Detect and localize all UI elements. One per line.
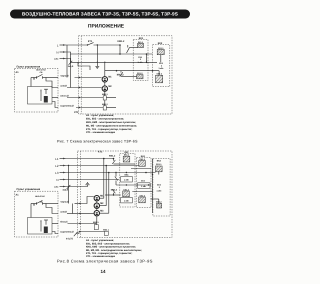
contactor contact KM2.2: [117, 71, 137, 77]
fan rect VB2: [121, 197, 133, 203]
svg-text:Пульт управления: Пульт управления: [17, 188, 41, 191]
svg-text:М3: М3: [100, 210, 104, 213]
fan rect VB1: [121, 174, 133, 182]
svg-text:Рис.8 Схема электрическая заве: Рис.8 Схема электрическая завеса ТЗР-9S: [57, 259, 153, 264]
wire row y185: [116, 184, 151, 185]
svg-text:L1: L1: [55, 157, 59, 161]
heater element EK2.2: [139, 194, 146, 202]
contactor contact KM1.2: [109, 155, 121, 164]
svg-text:ХТ1: ХТ1: [74, 111, 79, 114]
wire L1 bus: [65, 158, 114, 160]
svg-text:черный: черный: [60, 201, 69, 204]
wire row y168.5: [131, 168, 151, 170]
svg-text:СВ: СВ: [40, 71, 43, 74]
svg-text:КМ1.2: КМ1.2: [109, 155, 116, 158]
ground: [85, 183, 89, 185]
svg-text:КТ1: КТ1: [88, 40, 93, 43]
wire motor feed vertical: [104, 62, 105, 106]
heater element EK3.2: [156, 200, 162, 208]
svg-text:1 кВт: 1 кВт: [124, 179, 129, 182]
svg-text:4х2,5: 4х2,5: [63, 189, 69, 192]
wire PE run: [65, 59, 71, 63]
wire thermostat leads: [52, 98, 58, 108]
wire N bus: [65, 179, 119, 181]
wire white lead: [60, 221, 94, 225]
svg-text:L2: L2: [55, 164, 59, 168]
svg-text:ЕК2: ЕК2: [141, 180, 146, 183]
legend list fig7: [86, 114, 137, 134]
svg-text:ВБ1: ВБ1: [125, 174, 130, 177]
contactor contact KM1.2: [118, 40, 138, 53]
wire PE bus y62.3: [71, 54, 157, 63]
svg-text:14: 14: [100, 269, 106, 274]
wire drop L to black lead: [66, 45, 68, 78]
enclosure dashed box: [78, 151, 173, 238]
wire motor drops: [100, 159, 109, 214]
cable label 4x2,5: [67, 185, 71, 189]
thermostat block: [28, 218, 53, 235]
svg-text:ВОЗДУШНО-ТЕПЛОВАЯ ЗАВЕСА ТЗР-3: ВОЗДУШНО-ТЕПЛОВАЯ ЗАВЕСА ТЗР-3S, ТЗР-5S,…: [22, 12, 178, 17]
capacitor block KM1.1: [93, 221, 100, 230]
svg-text:PE: PE: [54, 57, 58, 61]
node L input: [57, 43, 66, 47]
svg-text:ЕК3: ЕК3: [157, 183, 162, 186]
svg-text:ВКЛ-ОТКЛ: ВКЛ-ОТКЛ: [36, 69, 46, 72]
capacitor block KM2.1: [103, 228, 110, 235]
svg-text:ЕК3: ЕК3: [157, 160, 162, 163]
label EK1.2 value: [138, 56, 143, 64]
node N input: [56, 50, 65, 54]
svg-text:ПРИЛОЖЕНИЕ: ПРИЛОЖЕНИЕ: [88, 24, 125, 30]
control panel dashed box A1: [15, 65, 59, 112]
heater element EK3.1: [156, 163, 163, 172]
svg-text:N: N: [56, 178, 58, 182]
svg-text:М2: М2: [100, 202, 104, 205]
svg-text:1 кВт: 1 кВт: [124, 200, 129, 203]
switch SA1: [31, 69, 58, 80]
svg-text:коричневый: коричневый: [60, 231, 74, 234]
wire L bus: [65, 44, 121, 46]
heater block EK2 dashed box: [153, 42, 170, 87]
svg-text:3х1,5: 3х1,5: [68, 65, 74, 68]
heater element EK1.1: [138, 41, 145, 48]
svg-text:Пульт управления: Пульт управления: [17, 65, 41, 68]
wire row y195: [105, 194, 121, 195]
wire drop to ground x97.3: [97, 44, 98, 66]
wire PE to ground: [65, 185, 88, 187]
wire brown lead: [60, 231, 104, 234]
svg-text:КМ2.1: КМ2.1: [103, 228, 110, 231]
wire blue lead: [60, 211, 80, 215]
contactor contact KM2.2: [111, 189, 118, 196]
capacitor block KM1.1: [102, 93, 109, 100]
motor M1: [102, 76, 112, 83]
svg-text:А1: А1: [16, 194, 20, 197]
motor M1: [94, 195, 104, 201]
wire vertical junction x120: [119, 45, 121, 54]
svg-text:черный: черный: [60, 75, 69, 78]
svg-text:Рис. 7 Схема электрическая зав: Рис. 7 Схема электрическая завес ТЗР-6S: [57, 140, 138, 144]
svg-text:КМ1.2: КМ1.2: [118, 40, 125, 43]
svg-text:синий: синий: [60, 85, 67, 88]
heater block EK3 dashed box: [153, 159, 170, 217]
wire supply drop to panel leads: [68, 165, 73, 214]
svg-text:КТ1: КТ1: [98, 151, 103, 154]
title banner: [10, 10, 190, 19]
thermal switch KT1: [87, 40, 94, 46]
svg-text:М1: М1: [108, 76, 112, 79]
wire drop N to blue lead: [70, 54, 72, 88]
motor M3: [94, 210, 104, 216]
wire thermostat leads: [52, 224, 58, 234]
svg-text:М2: М2: [108, 85, 112, 88]
wire switch drop: [31, 204, 58, 218]
control panel dashed box A1: [15, 188, 59, 237]
svg-text:А1: А1: [16, 71, 20, 74]
motor M2: [102, 85, 112, 92]
switch SA1: [31, 195, 58, 206]
wire yellow lead: [59, 95, 116, 99]
wire L2 bus: [65, 165, 139, 167]
svg-text:1 кВт: 1 кВт: [158, 67, 163, 70]
svg-text:белый: белый: [60, 221, 68, 224]
heater element EK2.1: [157, 47, 164, 55]
svg-text:2: 2: [159, 186, 161, 189]
terminal strip line XT1: [80, 36, 82, 114]
svg-text:1 кВт: 1 кВт: [141, 185, 146, 188]
heater element EK2.2: [156, 73, 163, 83]
wire L3 bus: [65, 172, 156, 174]
node L1 input: [55, 157, 65, 161]
wire row y191.5: [132, 191, 152, 193]
cable label 4x0,75: [74, 232, 78, 236]
enclosure dashed box: [79, 36, 173, 114]
wire feeds EK2: [159, 55, 161, 76]
node L2 input: [55, 164, 65, 168]
svg-text:1 кВт: 1 кВт: [156, 189, 161, 192]
node N input: [56, 178, 65, 182]
motor M2: [94, 202, 104, 208]
wire N bus: [65, 52, 153, 55]
thermostat block: [28, 87, 53, 105]
svg-text:PE: PE: [54, 185, 58, 189]
svg-text:ЕК3.1: ЕК3.1: [156, 163, 162, 166]
legend list fig8: [86, 239, 142, 258]
heater element EK1.1: [123, 154, 130, 162]
cable label 3x1,5: [69, 61, 73, 65]
node PE input: [54, 57, 65, 61]
node PE input: [54, 185, 65, 189]
wire row y164: [121, 163, 136, 165]
svg-text:4-0,75: 4-0,75: [66, 237, 73, 240]
node L3 input: [55, 171, 65, 175]
heater block EK1 dashed box: [133, 37, 148, 81]
wire brown lead: [60, 105, 116, 109]
wire motor chain: [96, 201, 98, 223]
terminal strip line XT1 bottom: [79, 151, 81, 238]
wire black lead: [60, 201, 80, 205]
capacitor block KM1.2: [102, 103, 109, 110]
label EK2.2 value rect: [138, 180, 150, 189]
svg-text:ХТ1 - клеммная колодка: ХТ1 - клеммная колодка: [86, 131, 116, 134]
svg-text:синий: синий: [60, 211, 67, 214]
wire low bus y70.7: [105, 70, 159, 72]
svg-text:L: L: [57, 43, 59, 47]
svg-text:коричневый: коричневый: [60, 105, 74, 108]
label EK2.2 value: [158, 62, 163, 70]
wire panel to motor links: [80, 197, 94, 214]
contactor contact KM3.2: [115, 172, 118, 185]
label EK3.2 value: [156, 183, 161, 192]
heater element EK1.2: [137, 72, 144, 79]
heater element EK1.2: [123, 188, 130, 196]
wire switch drop: [31, 78, 58, 88]
ground: [95, 66, 99, 68]
svg-text:ВКЛ-ОТКЛ: ВКЛ-ОТКЛ: [35, 195, 45, 198]
wire junction dot row y172.5: [126, 172, 127, 173]
wire blue lead: [60, 85, 101, 89]
heater element EK2.1: [139, 158, 146, 166]
wire black lead: [60, 75, 101, 79]
svg-text:L3: L3: [55, 171, 59, 175]
svg-text:КМ2.2: КМ2.2: [111, 189, 118, 192]
heater block EK1 dashed box: [120, 151, 135, 207]
heater block EK2 dashed box: [136, 155, 151, 208]
svg-text:N: N: [56, 50, 58, 54]
wire right column vertical: [151, 159, 159, 214]
